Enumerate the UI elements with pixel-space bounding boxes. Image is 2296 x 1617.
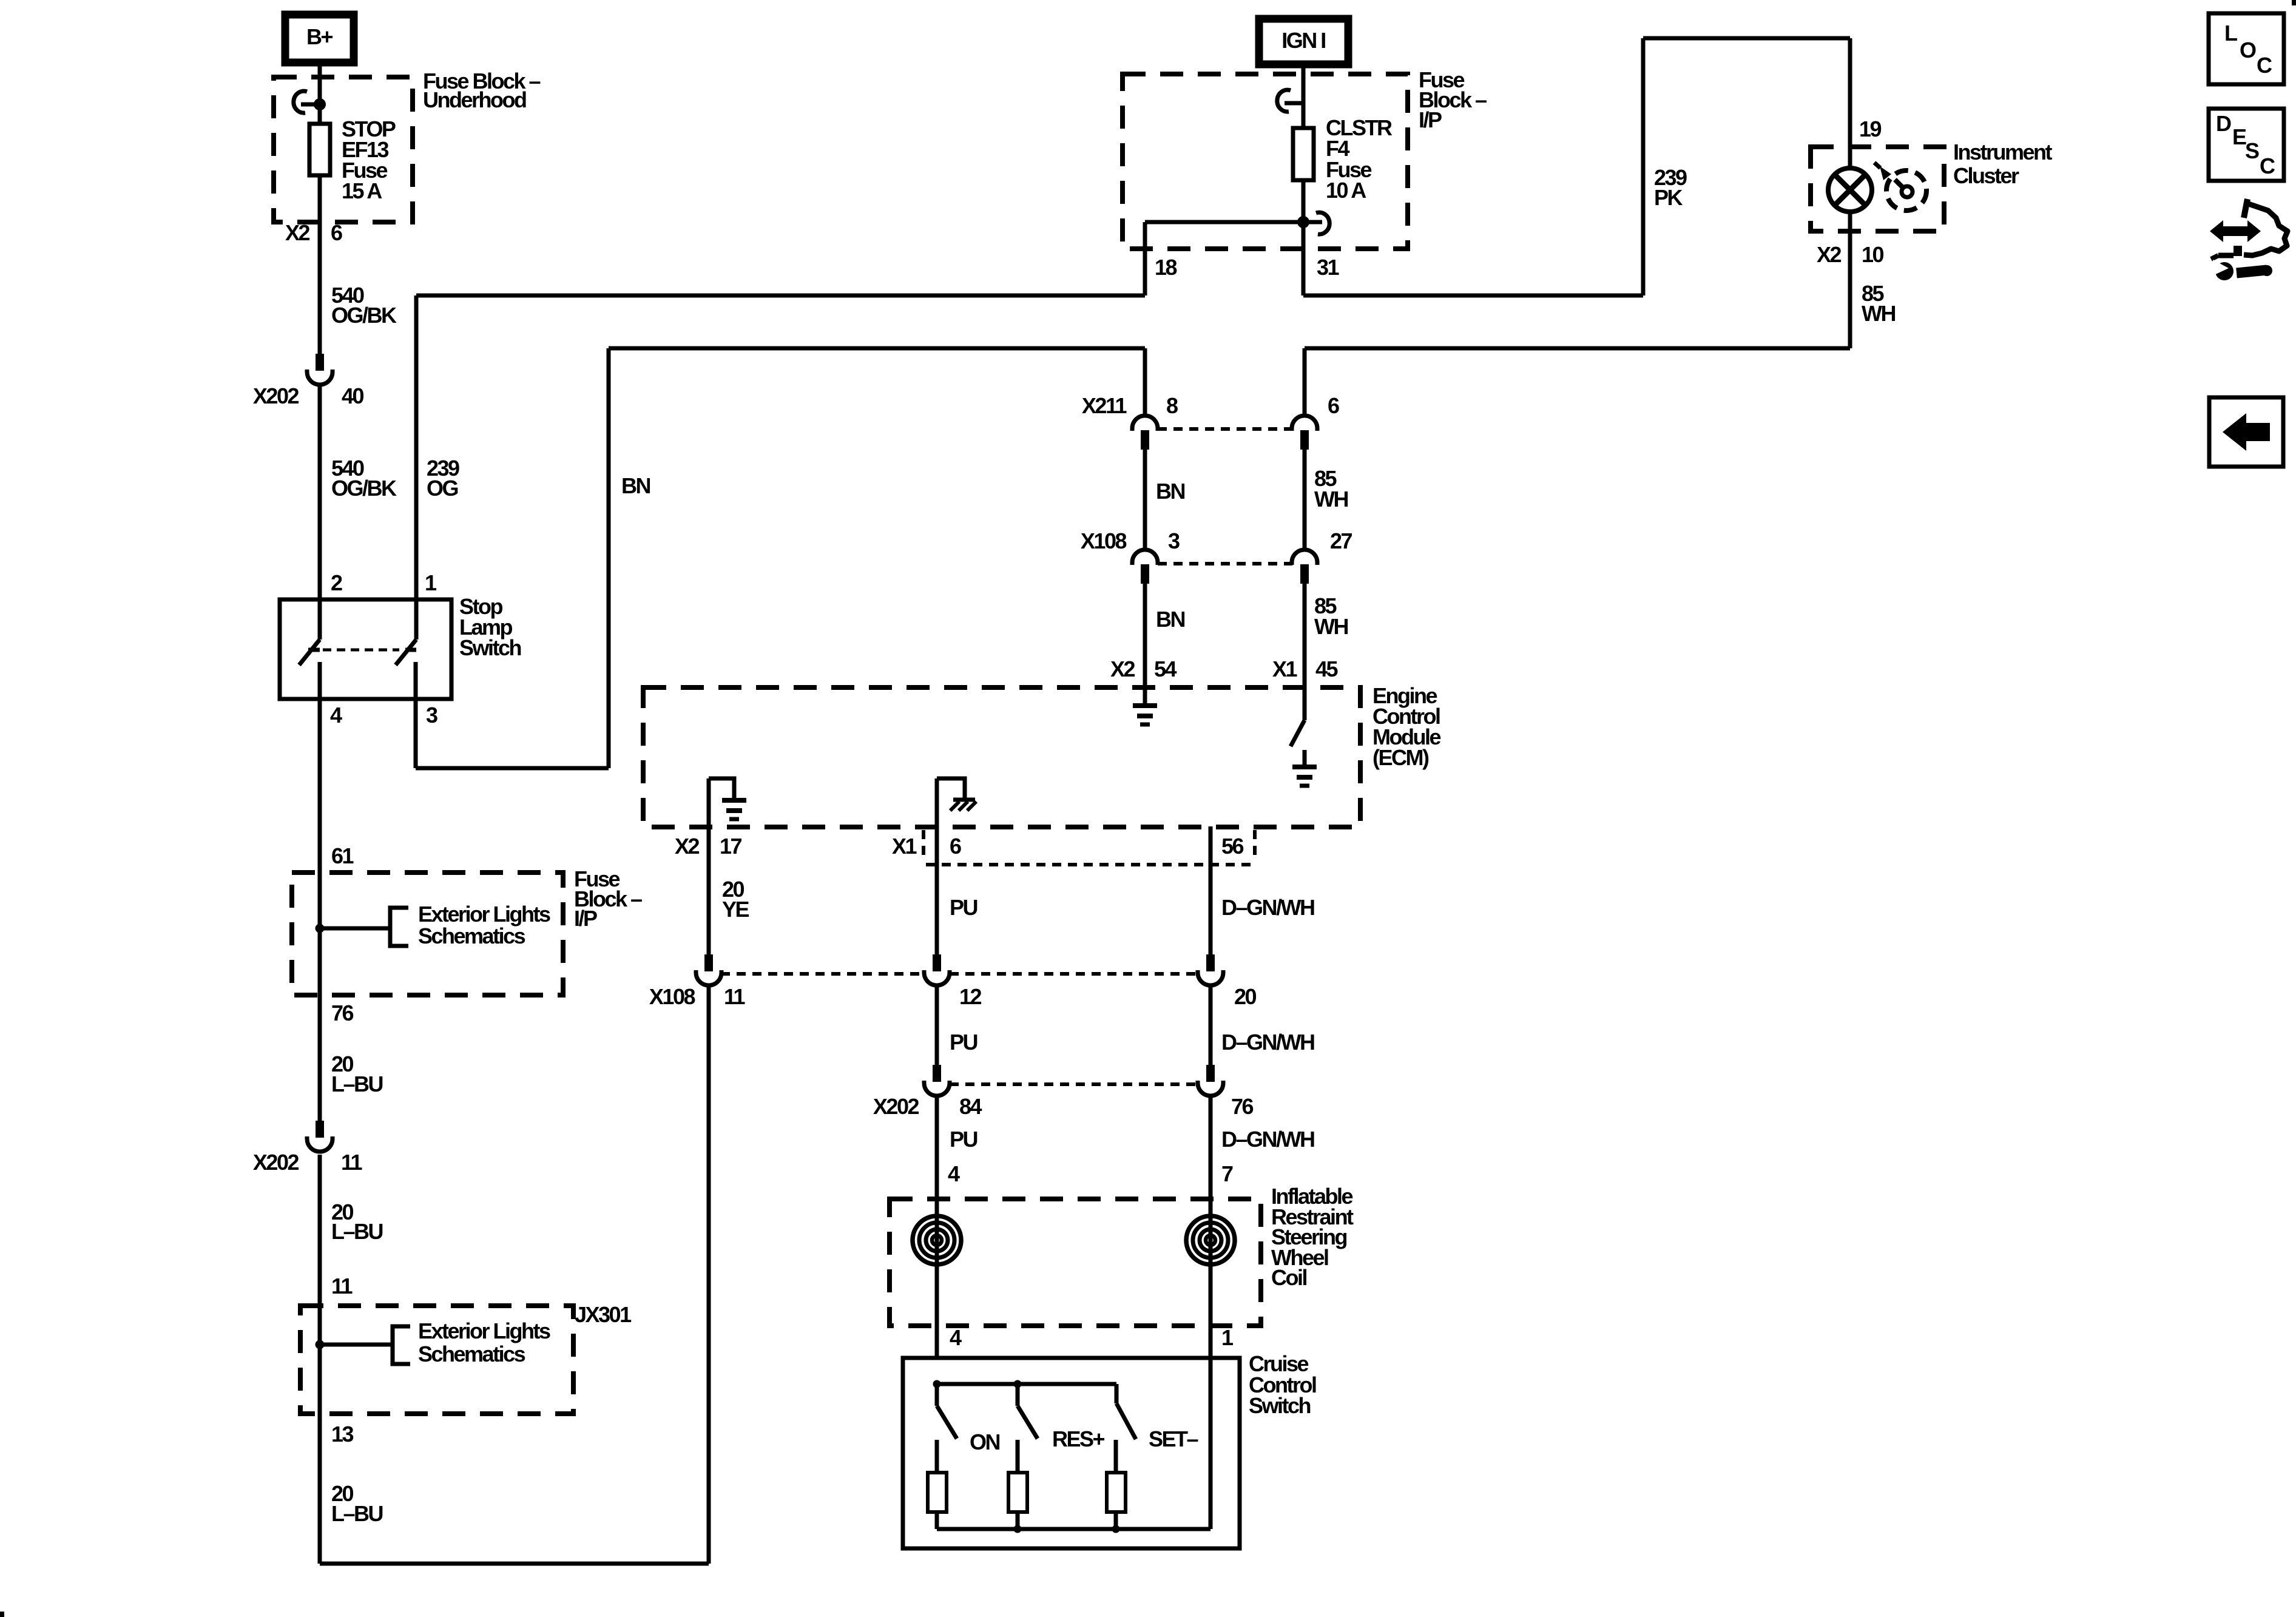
svg-text:31: 31 — [1317, 255, 1340, 280]
svg-text:11: 11 — [341, 1150, 363, 1175]
svg-text:7: 7 — [1221, 1161, 1233, 1186]
svg-text:17: 17 — [720, 834, 742, 859]
svg-text:15 A: 15 A — [342, 178, 382, 203]
svg-text:OG/BK: OG/BK — [331, 303, 397, 328]
svg-text:Cluster: Cluster — [1953, 163, 2019, 188]
svg-text:40: 40 — [342, 383, 364, 408]
svg-text:45: 45 — [1315, 657, 1339, 681]
svg-text:OG: OG — [427, 476, 458, 501]
svg-text:Switch: Switch — [1249, 1393, 1311, 1418]
svg-text:2: 2 — [331, 570, 342, 595]
svg-text:Exterior Lights: Exterior Lights — [418, 1318, 550, 1343]
svg-text:O: O — [2240, 38, 2256, 62]
svg-text:3: 3 — [426, 703, 437, 727]
svg-text:61: 61 — [331, 843, 354, 868]
svg-text:4: 4 — [948, 1161, 960, 1186]
svg-text:54: 54 — [1154, 657, 1177, 681]
svg-text:PK: PK — [1654, 185, 1683, 210]
svg-text:X108: X108 — [649, 984, 695, 1009]
svg-text:6: 6 — [331, 220, 342, 245]
svg-text:X202: X202 — [873, 1094, 919, 1119]
svg-text:X1: X1 — [892, 834, 917, 859]
svg-text:1: 1 — [1221, 1325, 1234, 1350]
svg-text:L–BU: L–BU — [331, 1501, 383, 1526]
svg-text:I/P: I/P — [574, 906, 597, 931]
svg-text:PU: PU — [950, 1127, 977, 1152]
svg-text:Schematics: Schematics — [418, 923, 525, 948]
svg-text:X2: X2 — [1110, 657, 1135, 681]
svg-text:3: 3 — [1168, 528, 1180, 553]
svg-text:BN: BN — [1156, 479, 1184, 504]
svg-text:4: 4 — [950, 1325, 962, 1350]
svg-text:E: E — [2232, 124, 2246, 149]
svg-text:X108: X108 — [1081, 528, 1127, 553]
svg-text:84: 84 — [959, 1094, 982, 1119]
svg-text:6: 6 — [950, 834, 961, 859]
svg-text:X202: X202 — [253, 383, 299, 408]
svg-text:IGN I: IGN I — [1281, 28, 1325, 53]
svg-text:YE: YE — [722, 897, 749, 922]
svg-text:11: 11 — [331, 1274, 353, 1298]
svg-text:6: 6 — [1328, 393, 1339, 418]
svg-text:RES+: RES+ — [1052, 1426, 1105, 1451]
svg-text:BN: BN — [1156, 607, 1184, 632]
svg-text:PU: PU — [950, 1030, 977, 1055]
svg-text:B+: B+ — [306, 24, 333, 49]
svg-text:X1: X1 — [1272, 657, 1298, 681]
svg-text:Schematics: Schematics — [418, 1342, 525, 1366]
svg-text:C: C — [2257, 53, 2272, 78]
svg-text:13: 13 — [331, 1422, 354, 1447]
svg-text:L–BU: L–BU — [331, 1072, 383, 1096]
svg-text:PU: PU — [950, 895, 977, 920]
svg-text:56: 56 — [1221, 834, 1244, 859]
svg-text:10: 10 — [1862, 242, 1884, 267]
svg-text:L: L — [2224, 21, 2237, 46]
svg-text:18: 18 — [1155, 255, 1177, 280]
svg-text:SET–: SET– — [1149, 1426, 1198, 1451]
svg-text:19: 19 — [1859, 116, 1882, 141]
svg-text:4: 4 — [330, 703, 342, 727]
svg-text:X2: X2 — [1817, 242, 1842, 267]
svg-text:WH: WH — [1314, 487, 1348, 511]
svg-text:L–BU: L–BU — [331, 1219, 383, 1244]
svg-text:S: S — [2245, 138, 2259, 163]
svg-text:D–GN/WH: D–GN/WH — [1221, 895, 1314, 920]
svg-text:X211: X211 — [1082, 393, 1127, 418]
svg-text:12: 12 — [959, 984, 982, 1009]
svg-text:1: 1 — [425, 570, 437, 595]
svg-text:D–GN/WH: D–GN/WH — [1221, 1030, 1314, 1055]
svg-text:X2: X2 — [675, 834, 700, 859]
svg-text:BN: BN — [621, 473, 650, 498]
svg-text:27: 27 — [1330, 528, 1352, 553]
svg-text:(ECM): (ECM) — [1373, 745, 1429, 770]
svg-text:20: 20 — [1234, 984, 1257, 1009]
svg-text:JX301: JX301 — [575, 1302, 632, 1327]
svg-text:Underhood: Underhood — [423, 87, 526, 112]
svg-text:Exterior Lights: Exterior Lights — [418, 902, 550, 927]
svg-text:10 A: 10 A — [1326, 178, 1366, 203]
svg-text:X2: X2 — [285, 220, 310, 245]
svg-text:WH: WH — [1314, 614, 1348, 639]
svg-text:WH: WH — [1862, 301, 1895, 326]
svg-text:I/P: I/P — [1419, 107, 1442, 132]
svg-text:Coil: Coil — [1271, 1265, 1306, 1290]
svg-text:X202: X202 — [253, 1150, 299, 1175]
svg-text:11: 11 — [724, 984, 746, 1009]
svg-text:Instrument: Instrument — [1953, 140, 2053, 164]
svg-text:C: C — [2260, 154, 2275, 178]
svg-text:D–GN/WH: D–GN/WH — [1221, 1127, 1314, 1152]
svg-text:D: D — [2216, 111, 2231, 136]
svg-text:8: 8 — [1166, 393, 1178, 418]
svg-text:76: 76 — [331, 1001, 354, 1025]
svg-text:Switch: Switch — [459, 635, 521, 660]
svg-text:OG/BK: OG/BK — [331, 476, 397, 501]
svg-text:ON: ON — [970, 1430, 1000, 1454]
svg-text:76: 76 — [1231, 1094, 1254, 1119]
